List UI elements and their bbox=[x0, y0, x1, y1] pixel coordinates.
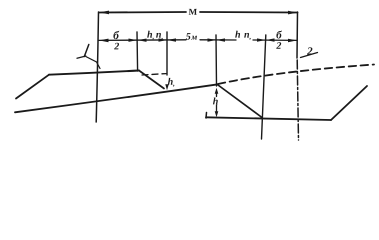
svg-text:h,n,: h,n, bbox=[147, 30, 164, 41]
svg-text:2: 2 bbox=[275, 41, 281, 52]
svg-text:б: б bbox=[276, 29, 282, 41]
svg-text:hn,: hn, bbox=[235, 30, 252, 41]
svg-text:2: 2 bbox=[306, 46, 313, 58]
svg-text:5м: 5м bbox=[186, 32, 198, 43]
svg-text:2: 2 bbox=[113, 41, 119, 52]
svg-text:M: M bbox=[189, 7, 198, 17]
svg-text:h: h bbox=[213, 96, 219, 107]
